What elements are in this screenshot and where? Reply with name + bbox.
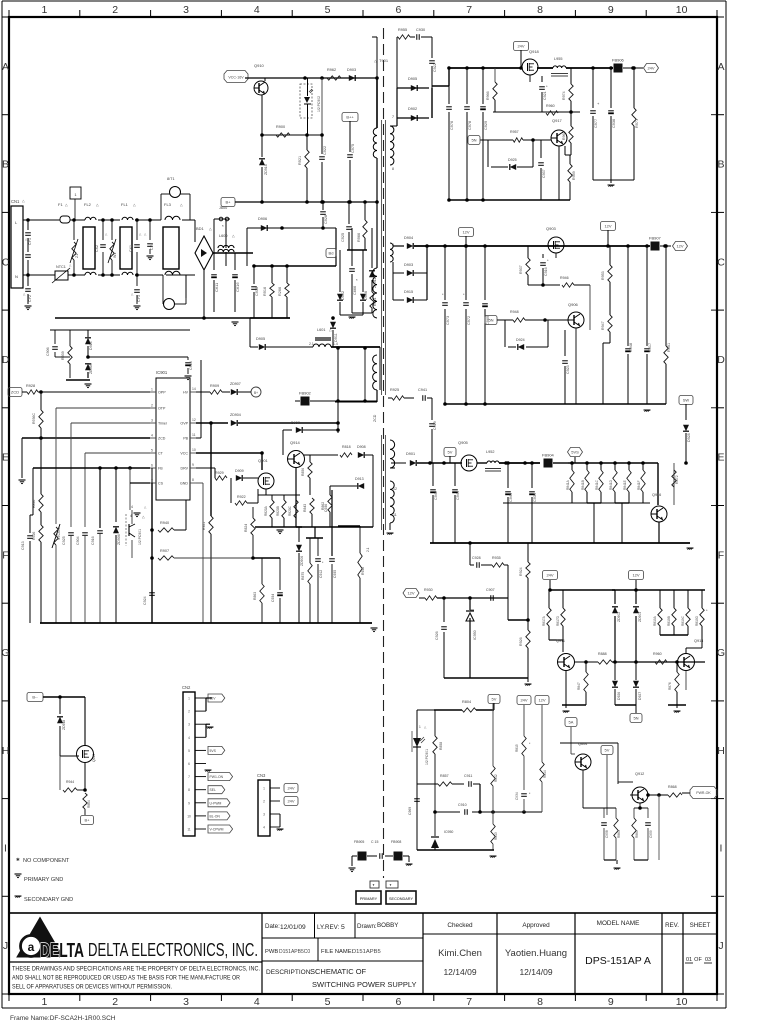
svg-text:D912: D912 [341, 291, 345, 300]
svg-text:4: 4 [254, 996, 260, 1008]
svg-text:VCC: VCC [180, 452, 188, 456]
svg-text:DESCRIPTION:: DESCRIPTION: [266, 969, 312, 976]
svg-text:DPS-151AP A: DPS-151AP A [585, 955, 651, 967]
svg-text:FL3: FL3 [164, 202, 172, 207]
svg-text:FB902: FB902 [299, 391, 312, 396]
svg-text:1: 1 [151, 388, 153, 392]
svg-text:BOBBY: BOBBY [377, 922, 398, 929]
svg-text:9: 9 [192, 463, 194, 467]
svg-text:R819B: R819B [667, 616, 671, 626]
svg-text:V-CPWM: V-CPWM [210, 828, 224, 832]
svg-text:CX2: CX2 [95, 245, 99, 252]
svg-text:C926: C926 [435, 631, 439, 640]
svg-text:△: △ [232, 234, 235, 238]
svg-text:6: 6 [151, 464, 153, 468]
svg-text:Kimi.Chen: Kimi.Chen [438, 948, 482, 959]
svg-text:SELL OF APPARATUSES OR DEVICES: SELL OF APPARATUSES OR DEVICES WITHOUT P… [12, 984, 172, 991]
svg-text:*: * [222, 224, 224, 229]
svg-text:THESE DRAWINGS AND SPECIFICATI: THESE DRAWINGS AND SPECIFICATIONS ARE TH… [12, 966, 260, 973]
svg-text:I: I [4, 842, 7, 854]
svg-text:ZD904: ZD904 [230, 413, 241, 417]
svg-text:PWR-OK: PWR-OK [696, 791, 711, 795]
svg-text:A: A [717, 61, 724, 73]
svg-text:D908: D908 [357, 445, 366, 449]
svg-text:6: 6 [395, 996, 401, 1008]
svg-text:Drawn:: Drawn: [357, 923, 377, 930]
svg-text:C948: C948 [629, 343, 633, 352]
svg-text:IC901: IC901 [156, 370, 168, 375]
svg-text:R974: R974 [562, 91, 566, 100]
svg-text:5V: 5V [605, 748, 610, 753]
svg-text:ZCD: ZCD [11, 390, 19, 395]
svg-text:B+: B+ [84, 818, 90, 823]
svg-text:Date:: Date: [265, 923, 280, 930]
svg-text:ZD905: ZD905 [89, 363, 93, 374]
svg-text:1/2 PC902: 1/2 PC902 [317, 96, 321, 112]
svg-text:C930: C930 [416, 28, 425, 32]
svg-text:SW: SW [683, 398, 690, 403]
svg-text:R812: R812 [494, 774, 498, 782]
svg-text:R935: R935 [492, 556, 501, 560]
svg-text:SECONDARY GND: SECONDARY GND [24, 897, 73, 903]
svg-text:Q914: Q914 [290, 440, 301, 445]
svg-text:9: 9 [608, 996, 614, 1008]
svg-text:5N: 5N [633, 716, 638, 721]
svg-text:CY3: CY3 [137, 295, 141, 302]
svg-text:PW1-ON: PW1-ON [210, 775, 224, 779]
svg-text:ZD902: ZD902 [617, 612, 621, 622]
svg-text:B+: B+ [225, 200, 231, 205]
svg-text:5A: 5A [569, 720, 574, 725]
svg-text:C958: C958 [605, 830, 609, 838]
svg-text:B+: B+ [254, 391, 258, 395]
svg-text:R819A: R819A [653, 615, 657, 626]
svg-text:R907: R907 [160, 549, 169, 553]
svg-text:R857: R857 [440, 774, 449, 778]
svg-text:Timer: Timer [158, 422, 168, 426]
svg-text:A: A [2, 61, 9, 73]
svg-text:Q912: Q912 [635, 772, 644, 776]
svg-text:E: E [2, 452, 9, 464]
svg-text:ZD903: ZD903 [638, 612, 642, 622]
svg-text:8: 8 [537, 4, 543, 16]
svg-text:FL2: FL2 [84, 202, 92, 207]
svg-text:R960: R960 [653, 652, 662, 656]
svg-text:R876: R876 [668, 682, 672, 690]
svg-text:12: 12 [393, 487, 397, 491]
svg-text:R804: R804 [462, 700, 471, 704]
svg-text:△: △ [180, 203, 183, 207]
svg-text:ZD906: ZD906 [117, 534, 121, 545]
svg-text:H: H [717, 745, 725, 757]
svg-text:10: 10 [192, 448, 196, 452]
svg-text:10: 10 [187, 814, 191, 818]
svg-text:C925: C925 [62, 536, 66, 545]
svg-text:12: 12 [192, 418, 196, 422]
svg-text:IC950: IC950 [444, 830, 453, 834]
svg-text:3: 3 [263, 813, 265, 817]
svg-text:24V: 24V [287, 786, 294, 791]
svg-text:△: △ [65, 203, 68, 207]
svg-text:2.1: 2.1 [309, 342, 314, 346]
svg-text:R841E: R841E [623, 480, 627, 490]
svg-text:R960: R960 [546, 104, 555, 108]
svg-text:5: 5 [325, 996, 331, 1008]
svg-text:D: D [717, 354, 725, 366]
svg-text:GND: GND [180, 482, 188, 486]
svg-text:L601: L601 [317, 328, 325, 332]
svg-text:C936: C936 [612, 119, 616, 128]
svg-text:SECONDARY: SECONDARY [389, 897, 413, 901]
svg-text:R939: R939 [61, 351, 65, 360]
svg-text:Yaotien.Huang: Yaotien.Huang [505, 948, 567, 959]
svg-text:R936C: R936C [32, 413, 36, 424]
svg-text:C941: C941 [418, 388, 427, 392]
svg-text:R864: R864 [617, 830, 621, 838]
svg-text:BL-ON: BL-ON [210, 814, 221, 818]
svg-text:24V: 24V [520, 698, 527, 703]
svg-text:C934: C934 [271, 594, 275, 602]
svg-text:Q903: Q903 [546, 226, 557, 231]
svg-text:D925: D925 [508, 158, 517, 162]
svg-text:24V: 24V [517, 44, 524, 49]
svg-text:5N: 5N [471, 138, 476, 143]
svg-text:1: 1 [188, 697, 190, 701]
svg-text:R947: R947 [601, 321, 605, 330]
svg-text:R824: R824 [244, 524, 248, 532]
svg-text:NO COMPONENT: NO COMPONENT [23, 858, 70, 864]
svg-text:N: N [15, 274, 18, 279]
svg-text:12V: 12V [538, 698, 545, 703]
svg-text:12V: 12V [462, 230, 469, 235]
svg-text:7: 7 [392, 115, 394, 119]
svg-text:MODEL NAME: MODEL NAME [597, 920, 640, 927]
svg-text:FILE NAME:: FILE NAME: [321, 949, 354, 955]
svg-text:R930: R930 [424, 588, 433, 592]
svg-text:R944: R944 [66, 780, 74, 784]
svg-text:R951: R951 [667, 343, 671, 352]
svg-text:C616: C616 [235, 282, 240, 292]
svg-text:G: G [1, 647, 9, 659]
svg-text:R819D: R819D [695, 615, 699, 626]
svg-text:C925: C925 [341, 233, 345, 242]
svg-text:C977: C977 [594, 119, 598, 128]
svg-text:B--: B-- [32, 695, 38, 700]
svg-text:C913: C913 [21, 541, 25, 550]
svg-text:T901: T901 [379, 58, 389, 63]
svg-text:D904: D904 [404, 236, 413, 240]
svg-text:R962: R962 [327, 68, 336, 72]
svg-text:ZD916: ZD916 [264, 164, 268, 175]
svg-text:8: 8 [392, 167, 394, 171]
svg-text:Q918: Q918 [529, 49, 540, 54]
svg-text:DELTA ELECTRONICS, INC.: DELTA ELECTRONICS, INC. [88, 940, 258, 960]
svg-text:C912: C912 [319, 570, 323, 578]
svg-text:R875: R875 [301, 572, 305, 580]
svg-text:Q917: Q917 [552, 118, 563, 123]
svg-text:C923: C923 [566, 365, 570, 374]
svg-text:LY.REV:: LY.REV: [317, 924, 340, 931]
svg-text:10: 10 [676, 4, 688, 16]
svg-text:4: 4 [188, 736, 190, 740]
svg-text:5VS: 5VS [571, 450, 579, 455]
svg-text:R847: R847 [577, 682, 581, 690]
svg-text:12V: 12V [676, 244, 683, 249]
svg-text:03: 03 [705, 957, 711, 963]
svg-text:F: F [718, 549, 724, 561]
svg-text:D927: D927 [638, 692, 642, 700]
svg-text:3: 3 [183, 996, 189, 1008]
svg-text:R814: R814 [543, 770, 547, 778]
svg-text:E: E [717, 452, 724, 464]
svg-text:CN3: CN3 [257, 773, 266, 778]
svg-text:C928: C928 [324, 215, 328, 224]
svg-text:FB906: FB906 [612, 58, 625, 63]
svg-text:R928: R928 [26, 384, 35, 388]
svg-text:C922: C922 [323, 146, 327, 155]
svg-text:B++: B++ [346, 115, 354, 120]
svg-text:a: a [28, 940, 35, 954]
svg-text:C907: C907 [486, 588, 495, 592]
svg-text:D924: D924 [516, 338, 525, 342]
svg-text:Frame Name:DF-SCA2H-1R00.SCH: Frame Name:DF-SCA2H-1R00.SCH [10, 1015, 116, 1022]
svg-text:7: 7 [188, 775, 190, 779]
svg-text:C936: C936 [255, 287, 259, 296]
svg-text:R932: R932 [361, 567, 365, 575]
svg-text:1/2 PC901: 1/2 PC901 [425, 749, 429, 765]
svg-text:2: 2 [151, 404, 153, 408]
svg-text:3: 3 [183, 4, 189, 16]
svg-text:F1: F1 [58, 202, 63, 207]
svg-text:5: 5 [151, 449, 153, 453]
svg-text:2: 2 [188, 710, 190, 714]
svg-text:△: △ [209, 227, 212, 231]
svg-text:C 15: C 15 [371, 840, 378, 844]
svg-text:C918: C918 [189, 361, 193, 370]
svg-text:SHEET: SHEET [690, 922, 711, 929]
svg-text:C929: C929 [484, 121, 488, 130]
svg-text:SWITCHING POWER SUPPLY: SWITCHING POWER SUPPLY [312, 980, 416, 989]
svg-text:OVP: OVP [180, 422, 188, 426]
svg-text:D151APB5: D151APB5 [352, 949, 381, 955]
svg-text:CY1: CY1 [28, 238, 32, 245]
svg-text:12/01/09: 12/01/09 [280, 924, 306, 931]
svg-text:BD1: BD1 [196, 226, 205, 231]
svg-text:R841A: R841A [566, 479, 570, 490]
svg-text:▼: ▼ [372, 883, 375, 887]
svg-text:C942: C942 [434, 491, 438, 500]
svg-text:Q906: Q906 [568, 302, 579, 307]
svg-text:G: G [717, 647, 725, 659]
svg-text:R813: R813 [494, 832, 498, 840]
svg-text:C924: C924 [143, 596, 147, 605]
svg-text:5N: 5N [488, 318, 493, 323]
svg-text:C937: C937 [542, 169, 546, 178]
svg-text:R971: R971 [635, 119, 639, 128]
svg-text:5: 5 [325, 4, 331, 16]
svg-text:R940: R940 [160, 521, 169, 525]
svg-text:△: △ [329, 328, 332, 332]
svg-text:C934: C934 [515, 792, 519, 800]
svg-text:C906: C906 [46, 347, 50, 356]
svg-text:12V: 12V [632, 573, 639, 578]
svg-text:11: 11 [192, 433, 196, 437]
svg-text:AND SHALL NOT BE REPRODUCED OR: AND SHALL NOT BE REPRODUCED OR USED AS T… [12, 975, 240, 982]
svg-text:B: B [2, 159, 9, 171]
svg-text:R922: R922 [237, 495, 246, 499]
svg-text:8/T1: 8/T1 [167, 177, 175, 181]
svg-text:J: J [718, 940, 723, 952]
svg-text:△: △ [133, 203, 136, 207]
svg-text:R841F: R841F [637, 480, 641, 490]
svg-text:D905: D905 [256, 337, 265, 341]
svg-text:CN2: CN2 [182, 685, 191, 690]
svg-text:R841B: R841B [581, 480, 585, 490]
svg-text:DRV: DRV [180, 467, 188, 471]
svg-text:C916: C916 [91, 536, 95, 545]
svg-text:Checked: Checked [447, 922, 473, 929]
svg-text:R843: R843 [303, 504, 307, 512]
svg-text:OF: OF [694, 957, 702, 963]
svg-text:4: 4 [254, 4, 260, 16]
svg-text:C904: C904 [76, 536, 80, 545]
svg-text:FB905: FB905 [354, 840, 364, 844]
svg-text:Q901: Q901 [258, 458, 269, 463]
svg-text:ZCD: ZCD [373, 414, 377, 422]
svg-text:7: 7 [466, 996, 472, 1008]
svg-text:FB: FB [158, 467, 163, 471]
svg-text:12/14/09: 12/14/09 [443, 967, 476, 977]
svg-text:Z1: Z1 [75, 254, 79, 258]
svg-text:D926: D926 [617, 692, 621, 700]
svg-text:HV: HV [183, 391, 189, 395]
svg-text:R957: R957 [510, 130, 519, 134]
svg-text:C: C [717, 256, 725, 268]
svg-text:CT: CT [158, 452, 164, 456]
svg-text:1: 1 [41, 996, 47, 1008]
svg-text:11: 11 [187, 828, 191, 832]
svg-text:C943: C943 [509, 493, 513, 502]
svg-text:FB904: FB904 [542, 453, 555, 458]
svg-text:△: △ [96, 203, 99, 207]
svg-text:OTP: OTP [158, 407, 166, 411]
svg-text:ZD948: ZD948 [62, 720, 66, 730]
svg-text:C972: C972 [467, 316, 471, 325]
svg-text:12V: 12V [604, 224, 611, 229]
svg-text:01: 01 [686, 957, 692, 963]
svg-text:11: 11 [393, 513, 397, 517]
svg-text:9: 9 [188, 801, 190, 805]
svg-text:R937: R937 [519, 265, 523, 274]
svg-text:FL1: FL1 [121, 202, 129, 207]
svg-text:IC950: IC950 [473, 630, 477, 640]
svg-text:PWB: PWB [265, 949, 278, 955]
svg-text:R916: R916 [263, 287, 267, 296]
svg-text:4: 4 [263, 826, 265, 830]
svg-text:12V: 12V [407, 591, 414, 596]
svg-text:24V: 24V [546, 573, 553, 578]
svg-text:R819C: R819C [681, 615, 685, 626]
svg-text:Q916: Q916 [652, 493, 661, 497]
svg-text:C911: C911 [464, 774, 472, 778]
svg-text:R926: R926 [519, 637, 523, 646]
svg-text:R266: R266 [278, 287, 282, 296]
svg-text:D909: D909 [235, 469, 244, 473]
svg-text:SCHEMATIC OF: SCHEMATIC OF [310, 967, 367, 976]
svg-text:SEL: SEL [210, 788, 217, 792]
svg-text:FB908: FB908 [391, 840, 401, 844]
svg-text:R921: R921 [298, 156, 302, 165]
svg-text:5: 5 [341, 924, 345, 931]
svg-text:6: 6 [188, 762, 190, 766]
svg-text:R820B: R820B [276, 506, 280, 516]
svg-text:REV.: REV. [665, 922, 679, 929]
svg-text:R862: R862 [321, 502, 325, 510]
svg-text:6: 6 [395, 4, 401, 16]
svg-text:C975: C975 [351, 144, 355, 153]
svg-text:R948: R948 [510, 310, 519, 314]
svg-text:12/14/09: 12/14/09 [519, 967, 552, 977]
svg-text:L952: L952 [486, 450, 494, 454]
svg-text:D914: D914 [89, 341, 93, 350]
svg-text:R872: R872 [675, 475, 679, 484]
svg-text:4: 4 [131, 505, 133, 509]
svg-text:R818: R818 [342, 445, 351, 449]
svg-text:D911: D911 [334, 333, 338, 342]
svg-text:D928: D928 [687, 433, 691, 442]
svg-text:C921: C921 [543, 91, 547, 100]
svg-text:CY4: CY4 [150, 243, 154, 250]
svg-text:D915: D915 [404, 290, 413, 294]
svg-text:1/2 PC901: 1/2 PC901 [138, 529, 142, 545]
svg-text:C928: C928 [472, 556, 481, 560]
svg-text:CS: CS [158, 482, 164, 486]
svg-text:R864: R864 [87, 800, 91, 808]
svg-text:R888: R888 [598, 652, 607, 656]
svg-text:10: 10 [676, 996, 688, 1008]
svg-text:14: 14 [192, 387, 196, 391]
svg-text:PRIMARY GND: PRIMARY GND [24, 877, 63, 883]
svg-text:DELTA: DELTA [40, 940, 84, 962]
svg-text:5VS: 5VS [210, 749, 217, 753]
svg-text:8: 8 [537, 996, 543, 1008]
svg-text:2: 2 [263, 800, 265, 804]
svg-text:R955: R955 [398, 28, 407, 32]
svg-text:C931: C931 [533, 493, 537, 502]
svg-text:B: B [717, 159, 724, 171]
svg-text:PRIMARY: PRIMARY [360, 897, 378, 901]
svg-text:R925: R925 [390, 388, 399, 392]
svg-text:C916: C916 [544, 267, 548, 276]
svg-text:C910: C910 [458, 803, 467, 807]
svg-text:CN1: CN1 [11, 199, 20, 204]
svg-text:R929: R929 [215, 471, 224, 475]
svg-text:R946: R946 [560, 276, 569, 280]
svg-text:1: 1 [419, 725, 421, 729]
svg-text:Approved: Approved [522, 922, 550, 929]
svg-text:OPP: OPP [158, 391, 166, 395]
svg-text:C944: C944 [456, 491, 460, 500]
svg-text:R953: R953 [601, 271, 605, 280]
svg-text:C: C [2, 256, 10, 268]
svg-text:2: 2 [112, 996, 118, 1008]
svg-text:ZD907: ZD907 [230, 382, 241, 386]
svg-text:R868: R868 [668, 785, 677, 789]
svg-text:R909: R909 [210, 384, 219, 388]
svg-text:Q911: Q911 [556, 639, 565, 643]
svg-text:C922: C922 [433, 63, 437, 72]
svg-text:D916: D916 [364, 291, 368, 300]
